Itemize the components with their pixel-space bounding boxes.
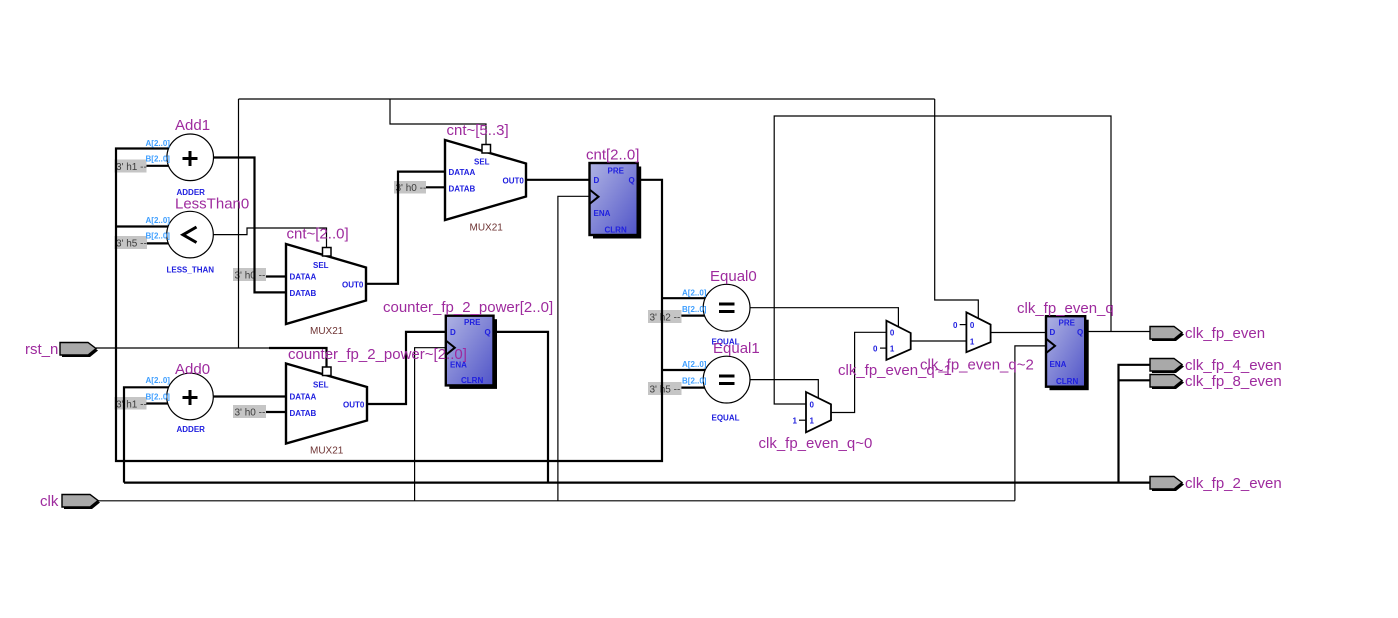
svg-text:EQUAL: EQUAL xyxy=(712,414,740,423)
wire clk_fp_even_q.Q to output pin xyxy=(1085,331,1150,333)
mux cnt~[2..0] xyxy=(286,226,366,338)
svg-text:ENA: ENA xyxy=(594,209,611,218)
wire bus const 3'h0 to cnt~[5..3] DATAB xyxy=(426,186,445,188)
wire bus Add1 output to cnt~[2..0] DATAB xyxy=(214,158,286,293)
svg-text:Q: Q xyxy=(629,176,635,185)
comparator Equal0 xyxy=(682,268,757,347)
svg-text:MUX21: MUX21 xyxy=(310,446,344,457)
svg-text:SEL: SEL xyxy=(313,261,329,270)
svg-text:clk: clk xyxy=(40,493,59,510)
wire bus cnt~[5..3] OUT0 to cnt D xyxy=(526,179,590,181)
mux clk_fp_even_q~0 xyxy=(759,392,873,452)
svg-text:D: D xyxy=(594,176,600,185)
svg-text:A[2..0]: A[2..0] xyxy=(682,360,707,369)
wire bus cnt.Q branch to Equal1 A xyxy=(662,369,706,371)
svg-text:B[2..0]: B[2..0] xyxy=(682,377,707,386)
wire bus Add0 output to counter_fp_2_power~[2..0] DATAA xyxy=(214,395,286,397)
wire clk_fp_even_q.Q feedback to clk_fp_even_q~0 input 0 xyxy=(774,116,1111,404)
comparator Equal1 xyxy=(682,340,760,423)
svg-text:A[2..0]: A[2..0] xyxy=(146,216,171,225)
svg-text:3' h0 --: 3' h0 -- xyxy=(235,271,266,282)
wire rst_n horizontal from input pin xyxy=(96,347,270,349)
wire bus counter_fp_2_power.Q riser to output pins xyxy=(1119,365,1151,483)
svg-text:DATAB: DATAB xyxy=(290,409,317,418)
svg-text:A[2..0]: A[2..0] xyxy=(146,376,171,385)
svg-text:ADDER: ADDER xyxy=(177,425,206,434)
svg-text:counter_fp_2_power[2..0]: counter_fp_2_power[2..0] xyxy=(383,299,553,316)
output pin clk_fp_2_even xyxy=(1150,475,1282,492)
mux clk_fp_even_q~1 xyxy=(838,321,952,379)
wire bus const 3'h1 to Add0 B xyxy=(146,402,175,404)
svg-text:ENA: ENA xyxy=(1050,360,1067,369)
wire rst_n drop to select of clk_fp_even_q~2 xyxy=(935,99,979,319)
wire bus const 3'h5 to Equal1 B xyxy=(681,387,707,389)
wire bus cnt.Q to Equal circles and feedback xyxy=(116,149,662,462)
svg-text:3' h1 --: 3' h1 -- xyxy=(116,400,147,411)
svg-text:MUX21: MUX21 xyxy=(310,326,344,337)
svg-text:cnt~[2..0]: cnt~[2..0] xyxy=(287,226,349,243)
value 3'h1 for Add0 B xyxy=(115,397,147,411)
output pin clk_fp_even xyxy=(1150,325,1265,342)
wire bus const 3'h1 to Add1 B xyxy=(147,165,176,167)
adder Add0 xyxy=(146,361,214,434)
comparator LessThan0 xyxy=(146,196,250,275)
wire bus cnt.Q branch to Equal0 A xyxy=(662,297,706,299)
wire rst_n riser to top rail xyxy=(238,99,240,348)
svg-text:counter_fp_2_power~[2..0]: counter_fp_2_power~[2..0] xyxy=(288,346,467,363)
wire bus const 3'h5 to LessThan0 B xyxy=(147,242,175,244)
wire bus const 3'h0 to counter_fp_2_power~[2..0] DATAB xyxy=(266,411,286,413)
svg-text:CLRN: CLRN xyxy=(1056,377,1078,386)
value 3'h0 for counter_fp_2_power~[2..0] DATAB xyxy=(233,405,266,419)
output pin clk_fp_4_even xyxy=(1150,357,1282,374)
output pin clk_fp_8_even xyxy=(1150,373,1282,390)
svg-text:DATAA: DATAA xyxy=(290,393,317,402)
svg-text:DATAA: DATAA xyxy=(449,168,476,177)
value 3'h0 for cnt~[2..0] DATAA xyxy=(233,268,266,282)
mux counter_fp_2_power~[2..0] xyxy=(286,364,367,457)
svg-text:A[2..0]: A[2..0] xyxy=(146,139,171,148)
svg-text:1: 1 xyxy=(970,338,975,347)
svg-text:0: 0 xyxy=(970,321,975,330)
wire bus cnt~[2..0] OUT0 to cnt~[5..3] DATAA xyxy=(366,172,445,284)
mux clk_fp_even_q~2 xyxy=(920,312,1034,373)
wire Equal1 output to select of clk_fp_even_q~0 xyxy=(750,380,818,398)
wire Equal0 output to select of clk_fp_even_q~1 xyxy=(750,308,898,328)
svg-text:OUT0: OUT0 xyxy=(503,177,525,186)
wire bus const 3'h2 to Equal0 B xyxy=(681,315,707,317)
wire bus branch to clk_fp_8_even pin xyxy=(1119,379,1151,381)
svg-text:cnt[2..0]: cnt[2..0] xyxy=(586,147,639,164)
svg-text:SEL: SEL xyxy=(313,381,329,390)
mux cnt~[5..3] xyxy=(445,122,526,234)
svg-text:B[2..0]: B[2..0] xyxy=(682,305,707,314)
svg-text:OUT0: OUT0 xyxy=(343,401,365,410)
wire clk_fp_even_q~2 output to clk_fp_even_q D xyxy=(991,332,1047,334)
dff counter_fp_2_power[2..0] xyxy=(383,299,553,389)
input pin clk xyxy=(40,493,100,510)
dff cnt[2..0] xyxy=(586,147,641,239)
svg-text:CLRN: CLRN xyxy=(605,226,627,235)
svg-text:B[2..0]: B[2..0] xyxy=(146,393,171,402)
svg-text:DATAB: DATAB xyxy=(449,185,476,194)
svg-text:Equal0: Equal0 xyxy=(710,268,757,285)
wire bus counter_fp_2_power.Q feedback to Add0 A xyxy=(124,387,170,482)
wire tie 0 to clk_fp_even_q~1 input 1 xyxy=(880,347,886,349)
svg-text:3' h2 --: 3' h2 -- xyxy=(650,313,681,324)
svg-text:clk_fp_8_even: clk_fp_8_even xyxy=(1185,373,1282,390)
svg-text:DATAB: DATAB xyxy=(290,289,317,298)
svg-text:0: 0 xyxy=(873,345,878,354)
svg-text:clk_fp_even_q~0: clk_fp_even_q~0 xyxy=(759,435,873,452)
svg-text:D: D xyxy=(450,328,456,337)
svg-text:1: 1 xyxy=(793,417,798,426)
wire clk_fp_even_q~0 output to clk_fp_even_q~1 input 0 xyxy=(831,332,886,412)
svg-text:0: 0 xyxy=(890,329,895,338)
svg-text:Add1: Add1 xyxy=(175,117,210,134)
svg-text:Equal1: Equal1 xyxy=(713,340,760,357)
wire clk riser to cnt clock xyxy=(558,196,590,501)
wire bus counter_fp_2_power.Q bottom rail xyxy=(124,332,1150,483)
svg-text:1: 1 xyxy=(810,417,815,426)
svg-text:3' h0 --: 3' h0 -- xyxy=(235,408,266,419)
svg-text:clk_fp_even_q~2: clk_fp_even_q~2 xyxy=(920,357,1034,374)
svg-text:DATAA: DATAA xyxy=(290,273,317,282)
svg-text:3' h1 --: 3' h1 -- xyxy=(116,162,147,173)
wire bus const 3'h0 to cnt~[2..0] DATAA xyxy=(266,275,286,277)
wire LessThan0 output to SEL of cnt~[2..0] xyxy=(213,228,327,249)
svg-text:A[2..0]: A[2..0] xyxy=(682,289,707,298)
svg-text:CLRN: CLRN xyxy=(461,376,483,385)
svg-text:Q: Q xyxy=(485,328,491,337)
wire clk riser to clk_fp_even_q clock xyxy=(1015,346,1047,501)
svg-text:PRE: PRE xyxy=(1059,319,1076,328)
input pin rst_n xyxy=(25,341,98,358)
svg-text:Add0: Add0 xyxy=(175,361,210,378)
wire rst_n drop to SEL of cnt~[5..3] xyxy=(390,99,486,146)
value 3'h5 for Equal1 B xyxy=(648,382,682,396)
svg-text:OUT0: OUT0 xyxy=(342,281,364,290)
adder Add1 xyxy=(146,117,214,197)
wire bus cnt.Q branch to LessThan0 A xyxy=(116,225,172,227)
dff clk_fp_even_q xyxy=(1017,300,1114,390)
svg-text:3' h0 --: 3' h0 -- xyxy=(396,183,427,194)
svg-text:LessThan0: LessThan0 xyxy=(175,196,249,213)
svg-text:PRE: PRE xyxy=(608,167,625,176)
svg-text:0: 0 xyxy=(953,321,958,330)
svg-text:MUX21: MUX21 xyxy=(470,223,504,234)
wire clk_fp_even_q~1 output to clk_fp_even_q~2 input 1 xyxy=(911,340,967,342)
svg-text:clk_fp_4_even: clk_fp_4_even xyxy=(1185,357,1282,374)
svg-text:clk_fp_even_q: clk_fp_even_q xyxy=(1017,300,1114,317)
svg-text:3' h5 --: 3' h5 -- xyxy=(650,385,681,396)
svg-text:LESS_THAN: LESS_THAN xyxy=(167,266,215,275)
svg-text:clk_fp_2_even: clk_fp_2_even xyxy=(1185,475,1282,492)
value 3'h1 for Add1 B xyxy=(115,160,147,174)
svg-text:B[2..0]: B[2..0] xyxy=(146,155,171,164)
wire tie 0 to clk_fp_even_q~2 input 0 xyxy=(960,324,967,326)
wire clk horizontal rail xyxy=(98,500,1015,502)
wire bus counter_fp_2_power~[2..0] OUT0 to counter D xyxy=(367,332,446,404)
svg-text:Q: Q xyxy=(1077,328,1083,337)
value 3'h2 for Equal0 B xyxy=(648,310,682,324)
svg-text:0: 0 xyxy=(810,401,815,410)
wire rst_n top rail xyxy=(239,98,935,100)
wire rst_n to SEL of counter_fp_2_power~[2..0] xyxy=(269,348,327,368)
svg-text:1: 1 xyxy=(890,345,895,354)
wire clk riser to counter_fp_2_power clock xyxy=(415,348,447,501)
svg-text:B[2..0]: B[2..0] xyxy=(146,232,171,241)
svg-text:SEL: SEL xyxy=(474,158,490,167)
svg-text:D: D xyxy=(1050,328,1056,337)
svg-text:rst_n: rst_n xyxy=(25,341,58,358)
svg-text:3' h5 --: 3' h5 -- xyxy=(116,239,147,250)
svg-text:PRE: PRE xyxy=(464,318,481,327)
svg-text:cnt~[5..3]: cnt~[5..3] xyxy=(447,122,509,139)
value 3'h0 for cnt~[5..3] DATAB xyxy=(394,181,426,194)
svg-text:clk_fp_even: clk_fp_even xyxy=(1185,325,1265,342)
value 3'h5 for LessThan0 B xyxy=(115,236,148,250)
wire tie 1 to clk_fp_even_q~0 input 1 xyxy=(799,419,806,421)
